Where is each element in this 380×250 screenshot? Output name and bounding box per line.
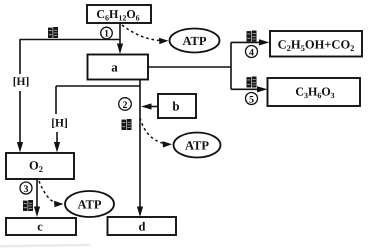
svg-text:4: 4: [249, 47, 254, 58]
svg-text:[H]: [H]: [51, 118, 68, 130]
svg-text:ATP: ATP: [77, 198, 101, 212]
ATP ellipse (top): [170, 29, 220, 53]
svg-text:C6H12O6: C6H12O6: [96, 7, 139, 22]
box d: [108, 217, 177, 235]
box a: [88, 55, 149, 80]
svg-text:[H]: [H]: [13, 76, 30, 88]
enzyme label (mei) near 3: [23, 200, 33, 211]
svg-text:a: a: [111, 60, 118, 75]
box O2: [6, 153, 74, 179]
svg-text:ATP: ATP: [182, 34, 206, 48]
dashed arrow: glucose to ATP: [122, 25, 160, 41]
svg-text:d: d: [139, 220, 146, 234]
dashed arrow: O2 to ATP (bottom): [39, 181, 56, 203]
wire: O2 down to box c: [36, 179, 38, 210]
ATP ellipse (bottom left): [65, 191, 114, 217]
wire: branch from vertical line to second [H]: [56, 85, 140, 87]
svg-text:2: 2: [123, 100, 128, 111]
enzyme label (mei) top-left: [48, 27, 58, 38]
wire: glucose to box a: [119, 23, 121, 48]
wire: arrow to lactic acid box: [231, 88, 260, 90]
scan smudge below box c: [0, 244, 90, 247]
box C6H12O6 (glucose): [87, 5, 151, 23]
wire: arrow to ethanol box: [231, 41, 262, 43]
box c: [6, 218, 76, 235]
svg-text:3: 3: [24, 184, 29, 195]
enzyme label (mei) near 5: [247, 77, 257, 88]
wire: right branch vertical: [230, 42, 232, 89]
circled 3: [20, 182, 32, 194]
circled 5: [246, 93, 258, 105]
dashed arrow: line to ATP (middle): [140, 118, 164, 144]
box C3H6O3 (lactic acid product): [268, 78, 361, 106]
svg-text:C3H6O3: C3H6O3: [295, 85, 334, 100]
wire: left vertical upper: [19, 40, 21, 75]
svg-text:1: 1: [104, 29, 109, 40]
svg-text:ATP: ATP: [185, 139, 209, 153]
box C2H5OH+CO2 (ethanol product): [270, 31, 362, 57]
circled 4: [246, 46, 258, 58]
enzyme label (mei) near 2: [122, 119, 132, 130]
ATP ellipse (middle right): [174, 133, 221, 158]
svg-text:b: b: [172, 99, 179, 114]
wire: enzyme line top-left: [20, 39, 121, 41]
wire: box a to right branch: [148, 66, 231, 68]
svg-text:5: 5: [249, 94, 254, 105]
svg-text:c: c: [37, 220, 43, 234]
enzyme label (mei) near 4: [247, 31, 257, 42]
circled 2: [119, 98, 132, 111]
wire: [H] down into O2 box: [56, 132, 58, 145]
wire: left vertical lower with arrow into O2: [19, 91, 21, 145]
box b: [158, 94, 196, 118]
circled 1: [101, 27, 113, 39]
wire: box a down to box d: [139, 80, 141, 211]
wire: box b arrow into vertical line: [148, 106, 158, 108]
